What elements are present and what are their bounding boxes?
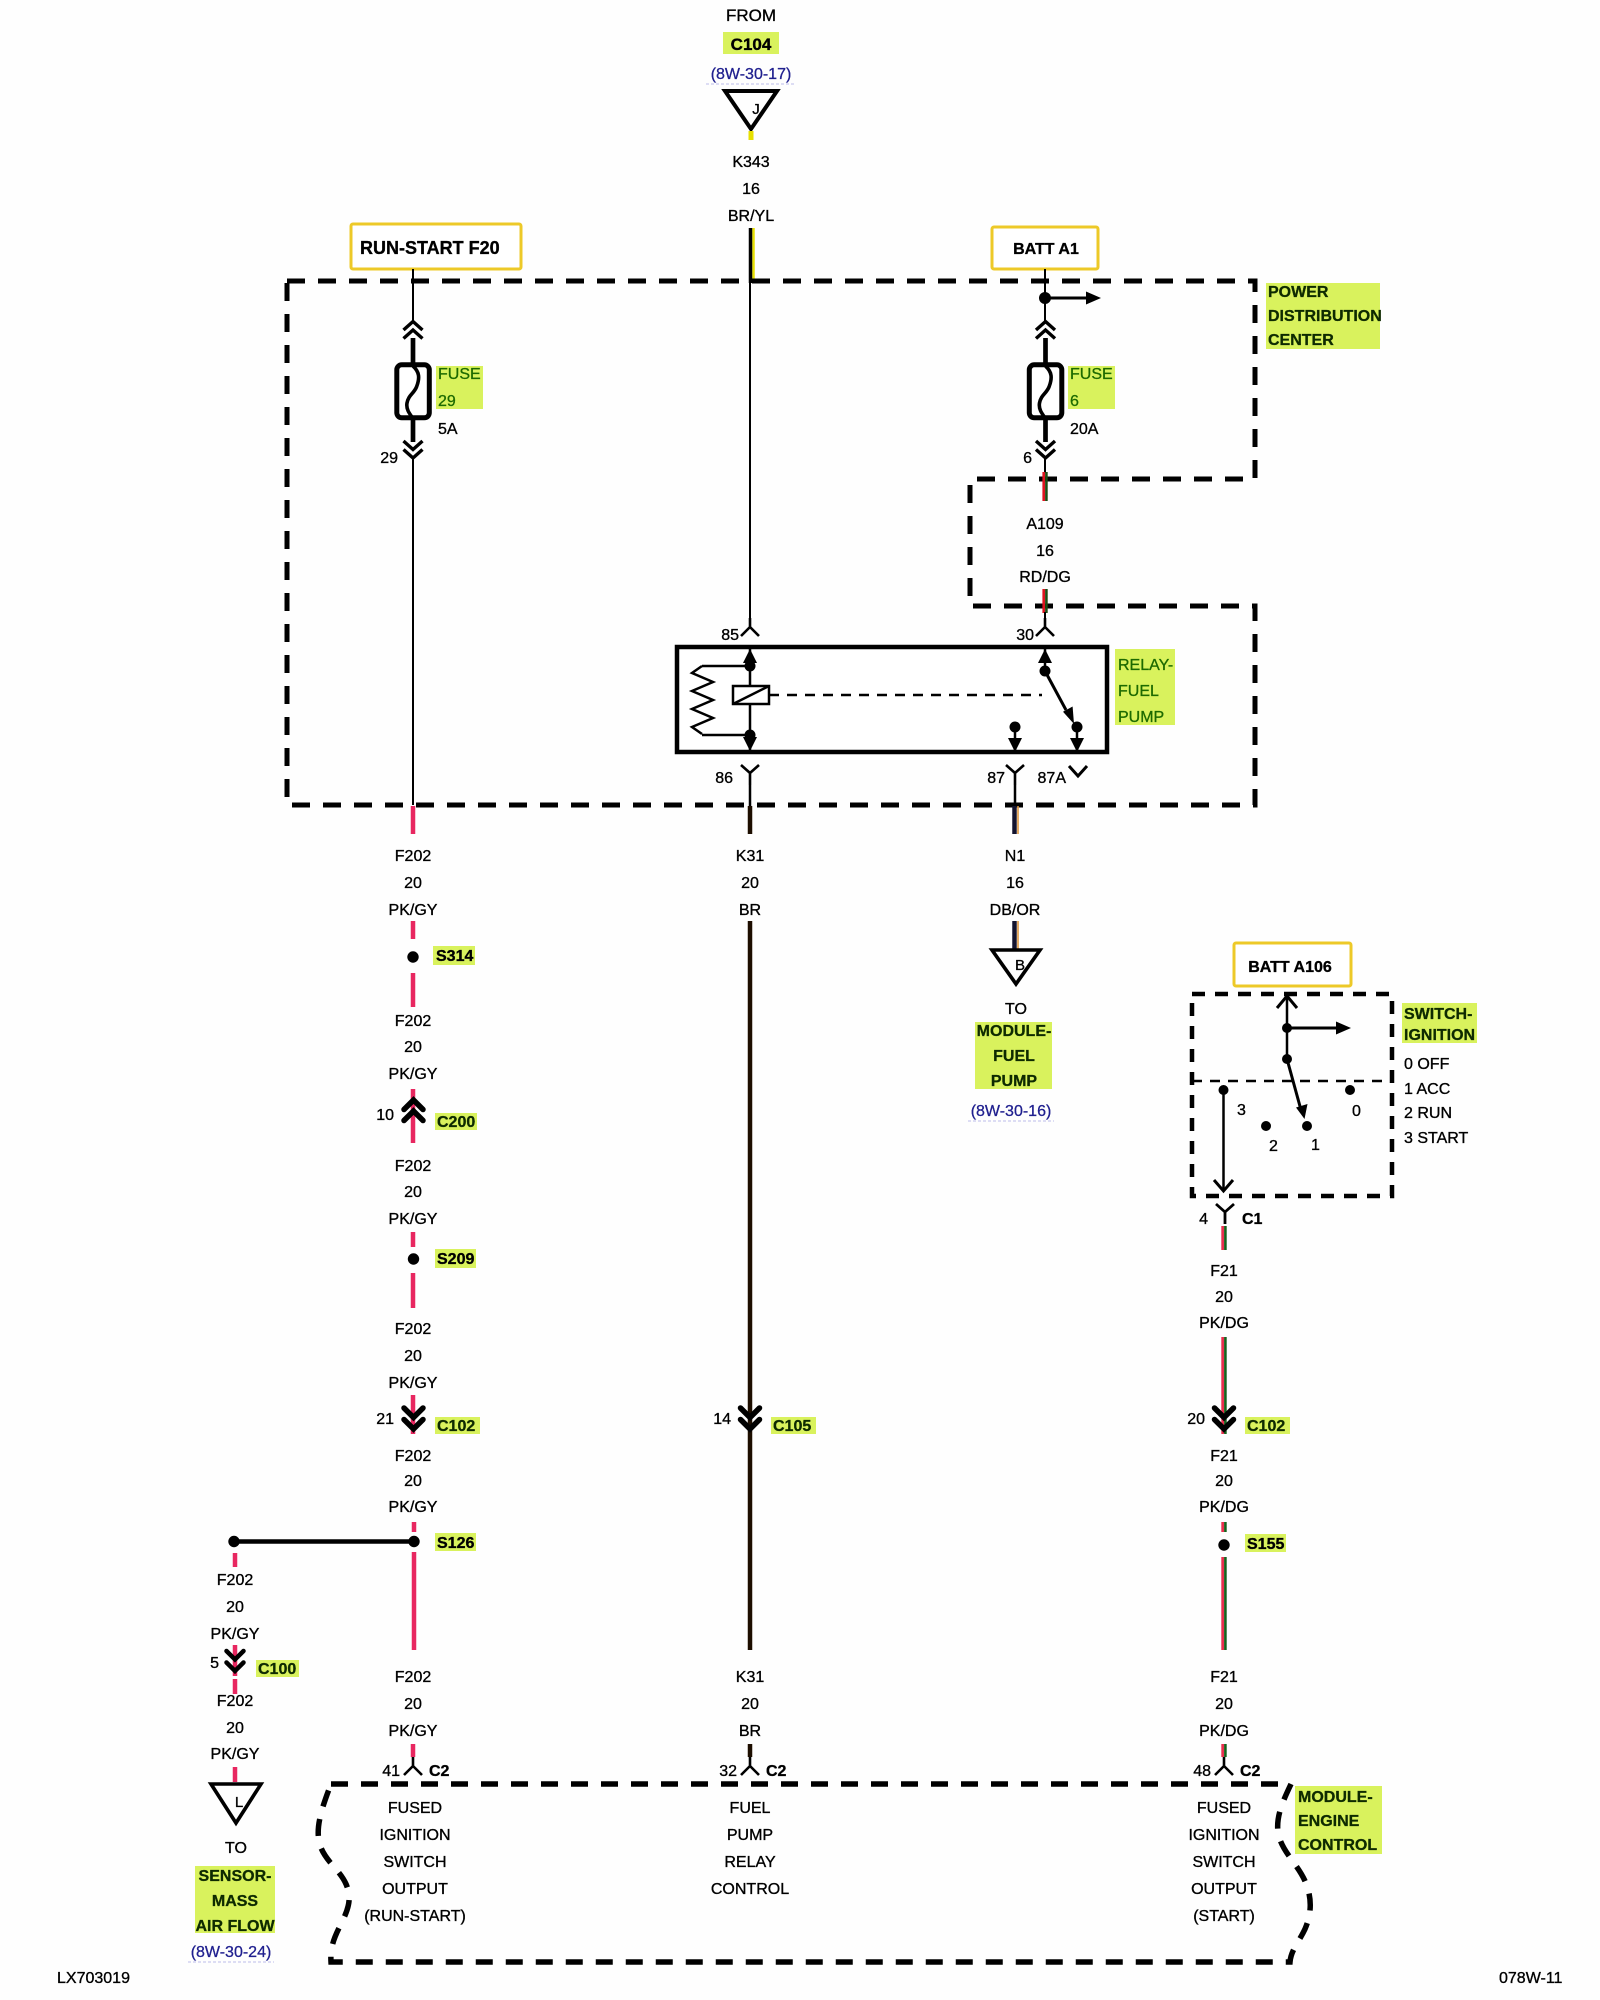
svg-text:20: 20 bbox=[226, 1599, 244, 1616]
svg-text:PUMP: PUMP bbox=[1118, 709, 1164, 726]
wire from BATT A1 bbox=[1044, 269, 1046, 322]
svg-text:41: 41 bbox=[382, 1763, 400, 1780]
wire label F202 20 PK/GY 5 bbox=[389, 1448, 438, 1516]
svg-text:ENGINE: ENGINE bbox=[1298, 1813, 1360, 1830]
svg-text:3 START: 3 START bbox=[1404, 1130, 1469, 1147]
label FUSED IGNITION SWITCH OUTPUT (RUN-START) bbox=[364, 1800, 466, 1925]
actuator dashed link bbox=[769, 694, 1042, 697]
svg-text:F21: F21 bbox=[1210, 1448, 1238, 1465]
wire F202 seg5 bbox=[411, 1232, 416, 1247]
svg-text:FUEL: FUEL bbox=[993, 1048, 1035, 1065]
label RELAY-FUEL PUMP bbox=[1115, 649, 1175, 726]
contact dot 87A bbox=[1072, 722, 1083, 733]
svg-text:LX703019: LX703019 bbox=[57, 1970, 130, 1987]
svg-text:16: 16 bbox=[1036, 543, 1054, 560]
svg-text:16: 16 bbox=[1006, 875, 1024, 892]
wire F202 seg1 bbox=[411, 806, 416, 834]
svg-text:20: 20 bbox=[404, 1039, 422, 1056]
svg-text:20: 20 bbox=[404, 875, 422, 892]
svg-text:C2: C2 bbox=[1240, 1763, 1261, 1780]
svg-text:PK/GY: PK/GY bbox=[389, 1723, 438, 1740]
wire label F202 20 PK/GY left2 bbox=[211, 1693, 260, 1763]
svg-text:F202: F202 bbox=[217, 1693, 254, 1710]
svg-text:K31: K31 bbox=[736, 1669, 765, 1686]
svg-text:29: 29 bbox=[438, 393, 456, 410]
wire label F202 20 PK/GY 4 bbox=[389, 1321, 438, 1392]
svg-text:FUEL: FUEL bbox=[730, 1800, 771, 1817]
svg-text:2 RUN: 2 RUN bbox=[1404, 1105, 1452, 1122]
node BATT A1 (yellow box) bbox=[992, 227, 1098, 269]
svg-text:3: 3 bbox=[1237, 1102, 1246, 1119]
svg-text:20: 20 bbox=[1215, 1473, 1233, 1490]
svg-text:1 ACC: 1 ACC bbox=[1404, 1081, 1450, 1098]
splice S126 bbox=[408, 1533, 476, 1552]
svg-text:TO: TO bbox=[1005, 1001, 1027, 1018]
wire label K343 16 BR/YL bbox=[728, 154, 774, 225]
splice S314 bbox=[407, 946, 475, 965]
wire K31 long run bbox=[748, 921, 753, 1434]
wire K31 seg1 bbox=[749, 785, 752, 806]
svg-text:S155: S155 bbox=[1247, 1536, 1284, 1553]
svg-text:20: 20 bbox=[1215, 1289, 1233, 1306]
svg-text:(RUN-START): (RUN-START) bbox=[364, 1908, 466, 1925]
svg-text:16: 16 bbox=[742, 181, 760, 198]
svg-text:PK/DG: PK/DG bbox=[1199, 1315, 1249, 1332]
svg-text:20: 20 bbox=[404, 1184, 422, 1201]
svg-text:MASS: MASS bbox=[212, 1893, 259, 1910]
wire label K31 20 BR 1 bbox=[736, 848, 765, 919]
svg-text:PK/GY: PK/GY bbox=[389, 1066, 438, 1083]
svg-text:C2: C2 bbox=[766, 1763, 787, 1780]
svg-text:RD/DG: RD/DG bbox=[1019, 569, 1071, 586]
wire F202 seg3 bbox=[411, 973, 416, 1007]
svg-text:BR/YL: BR/YL bbox=[728, 208, 774, 225]
off-page connector triangle L bbox=[211, 1784, 261, 1823]
svg-text:20: 20 bbox=[404, 1348, 422, 1365]
svg-text:PUMP: PUMP bbox=[727, 1827, 773, 1844]
svg-text:PK/GY: PK/GY bbox=[389, 1499, 438, 1516]
wire F202 left seg3 bbox=[233, 1679, 238, 1694]
connector C102 pin 20 bbox=[1187, 1408, 1290, 1435]
svg-text:DB/OR: DB/OR bbox=[990, 902, 1041, 919]
wire F202 seg10 bbox=[411, 1744, 416, 1757]
svg-text:CONTROL: CONTROL bbox=[1298, 1837, 1377, 1854]
relay coil branch wire bbox=[749, 647, 752, 752]
wire F202 seg6 bbox=[411, 1273, 416, 1308]
junction dot A1 bbox=[1039, 292, 1051, 304]
wire fuse 29 to PDC bottom bbox=[412, 458, 414, 805]
wire label F21 20 PK/DG 2 bbox=[1199, 1448, 1249, 1516]
contact dot 2 bbox=[1261, 1121, 1271, 1131]
svg-text:2: 2 bbox=[1269, 1138, 1278, 1155]
svg-text:L: L bbox=[235, 1794, 243, 1811]
switch-ignition dashed box bbox=[1192, 994, 1392, 1196]
label FUSED IGNITION SWITCH OUTPUT (START) bbox=[1188, 1800, 1259, 1925]
connector fork pin 86 bbox=[715, 765, 759, 787]
svg-text:K31: K31 bbox=[736, 848, 765, 865]
connector 87A unused bbox=[1038, 766, 1087, 787]
svg-text:PK/DG: PK/DG bbox=[1199, 1499, 1249, 1516]
arrowhead down pin 87A bbox=[1070, 738, 1084, 752]
svg-text:DISTRIBUTION: DISTRIBUTION bbox=[1268, 308, 1382, 325]
pin 87A wire inside bbox=[1076, 727, 1079, 752]
fuse A1 symbol (FUSE 6) bbox=[1029, 365, 1062, 419]
splice S155 bbox=[1218, 1534, 1286, 1553]
wire below pin 6 bbox=[1044, 458, 1046, 473]
contact dot 0 bbox=[1345, 1085, 1355, 1095]
wire thick into fuse 29 bbox=[411, 338, 416, 364]
svg-text:20: 20 bbox=[1187, 1411, 1205, 1428]
svg-text:86: 86 bbox=[715, 770, 733, 787]
reference (8W-30-24) bbox=[188, 1944, 274, 1962]
wire F202 seg4 bbox=[411, 1089, 416, 1143]
wire label A109 16 RD/DG bbox=[1019, 516, 1071, 586]
wire label F202 20 PK/GY 3 bbox=[389, 1158, 438, 1228]
wire thick below fuse 6 bbox=[1043, 420, 1048, 442]
fuse 6 value labels bbox=[1068, 366, 1115, 438]
svg-text:OUTPUT: OUTPUT bbox=[382, 1881, 448, 1898]
connector C100 pin 5 bbox=[210, 1651, 299, 1678]
connector chevrons fuse 29 top bbox=[404, 322, 423, 331]
relay core box bbox=[733, 686, 769, 704]
svg-text:K343: K343 bbox=[732, 154, 769, 171]
label SWITCH-IGNITION bbox=[1402, 1003, 1477, 1044]
off-page connector triangle J bbox=[725, 91, 777, 129]
connector fork pin 85 bbox=[721, 618, 759, 644]
wire F21 seg5 bbox=[1221, 1744, 1224, 1757]
junction dot feed bbox=[1282, 1023, 1292, 1033]
svg-text:30: 30 bbox=[1016, 627, 1034, 644]
wire label K31 20 BR 2 bbox=[736, 1669, 765, 1740]
svg-text:F202: F202 bbox=[217, 1572, 254, 1589]
svg-text:TO: TO bbox=[225, 1840, 247, 1857]
arrowhead down pin 86 bbox=[743, 737, 757, 751]
wire label F202 20 PK/GY 1 bbox=[389, 848, 438, 919]
svg-text:IGNITION: IGNITION bbox=[1404, 1027, 1475, 1044]
svg-text:C102: C102 bbox=[437, 1418, 475, 1435]
svg-text:J: J bbox=[752, 101, 760, 118]
svg-text:PK/GY: PK/GY bbox=[389, 902, 438, 919]
svg-text:IGNITION: IGNITION bbox=[379, 1827, 450, 1844]
fuse 29 value labels bbox=[436, 366, 483, 438]
relay pin 30 wire inside bbox=[1044, 647, 1047, 671]
wire label N1 16 DB/OR bbox=[990, 848, 1041, 919]
open arrowhead up bbox=[1277, 996, 1297, 1008]
contact dot 87 bbox=[1010, 722, 1021, 733]
svg-text:87A: 87A bbox=[1038, 770, 1067, 787]
svg-text:BATT A1: BATT A1 bbox=[1013, 241, 1079, 258]
connector C102 pin 21 bbox=[376, 1408, 480, 1435]
label POWER DISTRIBUTION CENTER bbox=[1266, 283, 1382, 349]
svg-text:0 OFF: 0 OFF bbox=[1404, 1056, 1450, 1073]
power distribution center dashed boundary bbox=[287, 281, 1255, 805]
svg-text:F202: F202 bbox=[395, 1321, 432, 1338]
svg-text:078W-11: 078W-11 bbox=[1499, 1970, 1563, 1987]
wire F202 left seg4 bbox=[233, 1767, 238, 1782]
wire stub yellow below J bbox=[749, 131, 754, 140]
switch blade to 87A bbox=[1045, 671, 1074, 724]
arrowhead up pin 85 bbox=[743, 649, 757, 663]
wire K343 BR/YL bbox=[751, 228, 754, 283]
svg-text:PK/GY: PK/GY bbox=[211, 1626, 260, 1643]
svg-text:20: 20 bbox=[404, 1473, 422, 1490]
svg-text:F21: F21 bbox=[1210, 1669, 1238, 1686]
svg-text:CENTER: CENTER bbox=[1268, 332, 1334, 349]
svg-text:F202: F202 bbox=[395, 1669, 432, 1686]
wire label F21 20 PK/DG 3 bbox=[1199, 1669, 1249, 1740]
svg-text:PK/DG: PK/DG bbox=[1199, 1723, 1249, 1740]
svg-text:20: 20 bbox=[741, 875, 759, 892]
svg-text:PUMP: PUMP bbox=[991, 1073, 1038, 1090]
svg-text:A109: A109 bbox=[1026, 516, 1063, 533]
svg-text:21: 21 bbox=[376, 1411, 394, 1428]
junction dot switch pivot bbox=[1040, 666, 1051, 677]
reference (8W-30-17) bbox=[706, 66, 796, 84]
wire F21 seg1 bbox=[1221, 1226, 1224, 1250]
branch arrow right from A1 bbox=[1045, 292, 1101, 305]
svg-text:F202: F202 bbox=[395, 1013, 432, 1030]
svg-text:IGNITION: IGNITION bbox=[1188, 1827, 1259, 1844]
connector C200 pin 10 bbox=[376, 1100, 477, 1131]
svg-text:C105: C105 bbox=[773, 1418, 811, 1435]
svg-text:10: 10 bbox=[376, 1107, 394, 1124]
svg-text:F21: F21 bbox=[1210, 1263, 1238, 1280]
wire into relay pin 30 bbox=[1044, 612, 1046, 620]
svg-text:(START): (START) bbox=[1193, 1908, 1255, 1925]
svg-text:87: 87 bbox=[987, 770, 1005, 787]
connector C2 pin 32 bbox=[719, 1757, 786, 1780]
svg-text:BR: BR bbox=[739, 902, 761, 919]
svg-text:6: 6 bbox=[1070, 393, 1079, 410]
arrowhead down pin 87 bbox=[1008, 738, 1022, 752]
label MODULE-ENGINE CONTROL bbox=[1295, 1786, 1382, 1854]
svg-text:C2: C2 bbox=[429, 1763, 450, 1780]
wire F202 left seg2 bbox=[233, 1645, 238, 1676]
svg-text:(8W-30-16): (8W-30-16) bbox=[971, 1103, 1052, 1120]
svg-text:20: 20 bbox=[1215, 1696, 1233, 1713]
svg-text:FUSED: FUSED bbox=[1197, 1800, 1251, 1817]
connector chevrons fuse 6 bottom, pin 6 bbox=[1036, 441, 1055, 450]
wire F202 seg8 bbox=[412, 1522, 417, 1532]
wire label F202 20 PK/GY left1 bbox=[211, 1572, 260, 1643]
wire F21 seg3 bbox=[1221, 1522, 1224, 1532]
svg-text:F202: F202 bbox=[395, 1158, 432, 1175]
wire thick below fuse 29 bbox=[411, 420, 416, 442]
wire F21 seg4 long bbox=[1221, 1557, 1224, 1650]
svg-text:20A: 20A bbox=[1070, 421, 1099, 438]
svg-text:B: B bbox=[1015, 957, 1025, 974]
label MODULE-FUEL PUMP bbox=[975, 1022, 1052, 1090]
svg-text:6: 6 bbox=[1023, 450, 1032, 467]
reference (8W-30-16) bbox=[968, 1103, 1054, 1121]
pin 87 wire inside bbox=[1014, 727, 1017, 752]
connector C105 pin 14 bbox=[713, 1408, 816, 1435]
svg-text:C1: C1 bbox=[1242, 1211, 1263, 1228]
connector chevrons fuse 29 bottom, pin 29 bbox=[404, 441, 423, 450]
svg-text:PK/GY: PK/GY bbox=[389, 1375, 438, 1392]
svg-text:FUSE: FUSE bbox=[438, 366, 481, 383]
wire label F202 20 PK/GY 2 bbox=[389, 1013, 438, 1083]
wire F21 seg2 bbox=[1221, 1337, 1224, 1434]
svg-text:OUTPUT: OUTPUT bbox=[1191, 1881, 1257, 1898]
svg-text:20: 20 bbox=[741, 1696, 759, 1713]
svg-text:20: 20 bbox=[226, 1720, 244, 1737]
label SENSOR-MASS AIR FLOW bbox=[195, 1866, 275, 1935]
wire F202 left seg1 bbox=[233, 1553, 238, 1567]
svg-text:FUSE: FUSE bbox=[1070, 366, 1113, 383]
connector fork pin 87 bbox=[987, 765, 1024, 787]
svg-text:N1: N1 bbox=[1005, 848, 1026, 865]
svg-text:5: 5 bbox=[210, 1655, 219, 1672]
fuse F20 symbol (FUSE 29) bbox=[397, 365, 430, 419]
coil top lead bbox=[702, 665, 750, 668]
off-page connector triangle B bbox=[992, 950, 1040, 984]
node BATT A106 (yellow box) bbox=[1234, 943, 1351, 986]
branch arrow right bbox=[1287, 1022, 1351, 1035]
connector C104 label bbox=[723, 32, 779, 54]
connector chevrons fuse 6 top bbox=[1036, 322, 1055, 331]
node RUN-START F20 (yellow box) bbox=[351, 224, 521, 269]
svg-text:S209: S209 bbox=[437, 1251, 474, 1268]
svg-text:SWITCH-: SWITCH- bbox=[1404, 1006, 1472, 1023]
wire A109 RD/DG lower segment bbox=[1042, 589, 1045, 613]
wire N1 seg2 DB/OR bbox=[1015, 806, 1019, 834]
svg-text:48: 48 bbox=[1193, 1763, 1211, 1780]
coil bottom lead bbox=[702, 734, 750, 737]
svg-text:32: 32 bbox=[719, 1763, 737, 1780]
svg-text:MODULE-: MODULE- bbox=[1298, 1789, 1373, 1806]
label FUEL PUMP RELAY CONTROL bbox=[711, 1800, 789, 1898]
contact dot 3 bbox=[1219, 1085, 1229, 1095]
wire thick into fuse 6 bbox=[1043, 338, 1048, 364]
svg-text:RUN-START F20: RUN-START F20 bbox=[360, 238, 500, 258]
svg-text:F202: F202 bbox=[395, 848, 432, 865]
arrowhead up pin 30 bbox=[1038, 649, 1052, 663]
switch internal dashed separator bbox=[1192, 1080, 1392, 1083]
wire from RUN-START box bbox=[412, 269, 414, 322]
svg-text:PK/GY: PK/GY bbox=[211, 1746, 260, 1763]
switch wiper blade bbox=[1287, 1059, 1308, 1119]
splice S209 bbox=[408, 1249, 476, 1268]
svg-text:C102: C102 bbox=[1247, 1418, 1285, 1435]
svg-text:FUEL: FUEL bbox=[1118, 683, 1159, 700]
svg-text:S314: S314 bbox=[436, 948, 473, 965]
wire N1 seg3 bbox=[1015, 921, 1019, 949]
svg-text:29: 29 bbox=[380, 450, 398, 467]
svg-text:(8W-30-17): (8W-30-17) bbox=[711, 66, 792, 83]
wire A109 RD/DG upper segment bbox=[1042, 472, 1045, 501]
wire K31 seg4 bbox=[748, 1744, 753, 1757]
wire N1 seg1 bbox=[1014, 785, 1017, 806]
svg-text:(8W-30-24): (8W-30-24) bbox=[191, 1944, 272, 1961]
connector C1 pin 4 bbox=[1199, 1204, 1262, 1228]
svg-text:CONTROL: CONTROL bbox=[711, 1881, 789, 1898]
wire K31 seg2 brown bbox=[748, 806, 753, 834]
wire F202 main below S126 bbox=[412, 1552, 417, 1650]
start contact output wire bbox=[1214, 1090, 1233, 1191]
svg-text:SWITCH: SWITCH bbox=[383, 1854, 446, 1871]
svg-text:SWITCH: SWITCH bbox=[1192, 1854, 1255, 1871]
splice S126 bus bbox=[234, 1539, 414, 1544]
svg-text:C104: C104 bbox=[731, 35, 772, 54]
svg-text:MODULE-: MODULE- bbox=[977, 1023, 1052, 1040]
wire F202 seg2 bbox=[411, 921, 416, 939]
switch position legend bbox=[1404, 1056, 1469, 1147]
junction dot coil bottom bbox=[745, 730, 756, 741]
svg-text:BATT A106: BATT A106 bbox=[1248, 959, 1332, 976]
svg-text:FUSED: FUSED bbox=[388, 1800, 442, 1817]
svg-text:POWER: POWER bbox=[1268, 284, 1329, 301]
junction dot coil top bbox=[745, 661, 756, 672]
wire label F202 20 PK/GY 6 bbox=[389, 1669, 438, 1740]
svg-text:FROM: FROM bbox=[726, 6, 776, 25]
svg-text:14: 14 bbox=[713, 1411, 731, 1428]
connector fork pin 30 bbox=[1016, 618, 1054, 644]
svg-text:C100: C100 bbox=[258, 1661, 296, 1678]
svg-text:AIR FLOW: AIR FLOW bbox=[195, 1918, 275, 1935]
branch dot left bbox=[228, 1536, 239, 1547]
switch pivot dot bbox=[1282, 1054, 1292, 1064]
svg-text:5A: 5A bbox=[438, 421, 458, 438]
svg-text:85: 85 bbox=[721, 627, 739, 644]
contact position labels bbox=[1237, 1102, 1361, 1155]
svg-text:0: 0 bbox=[1352, 1103, 1361, 1120]
svg-text:BR: BR bbox=[739, 1723, 761, 1740]
svg-text:RELAY: RELAY bbox=[724, 1854, 776, 1871]
svg-text:1: 1 bbox=[1311, 1137, 1320, 1154]
wire to relay pin 85 bbox=[749, 283, 751, 618]
svg-text:C200: C200 bbox=[437, 1114, 475, 1131]
coil zigzag bbox=[692, 666, 713, 734]
wire K31 seg3 bbox=[748, 1434, 753, 1650]
svg-text:20: 20 bbox=[404, 1696, 422, 1713]
svg-text:SENSOR-: SENSOR- bbox=[199, 1868, 272, 1885]
svg-text:4: 4 bbox=[1199, 1211, 1208, 1228]
svg-text:RELAY-: RELAY- bbox=[1118, 657, 1173, 674]
svg-text:PK/GY: PK/GY bbox=[389, 1211, 438, 1228]
connector C2 pin 41 bbox=[382, 1757, 449, 1780]
wire label F21 20 PK/DG 1 bbox=[1199, 1263, 1249, 1332]
relay box RELAY-FUEL PUMP bbox=[677, 647, 1107, 752]
switch feed wire bbox=[1286, 996, 1289, 1059]
wire F202 seg7 bbox=[411, 1395, 416, 1434]
svg-text:S126: S126 bbox=[437, 1535, 474, 1552]
contact dot 1 bbox=[1302, 1121, 1312, 1131]
module-engine control dashed boundary bbox=[318, 1784, 1310, 1962]
connector C2 pin 48 bbox=[1193, 1757, 1260, 1780]
svg-text:F202: F202 bbox=[395, 1448, 432, 1465]
